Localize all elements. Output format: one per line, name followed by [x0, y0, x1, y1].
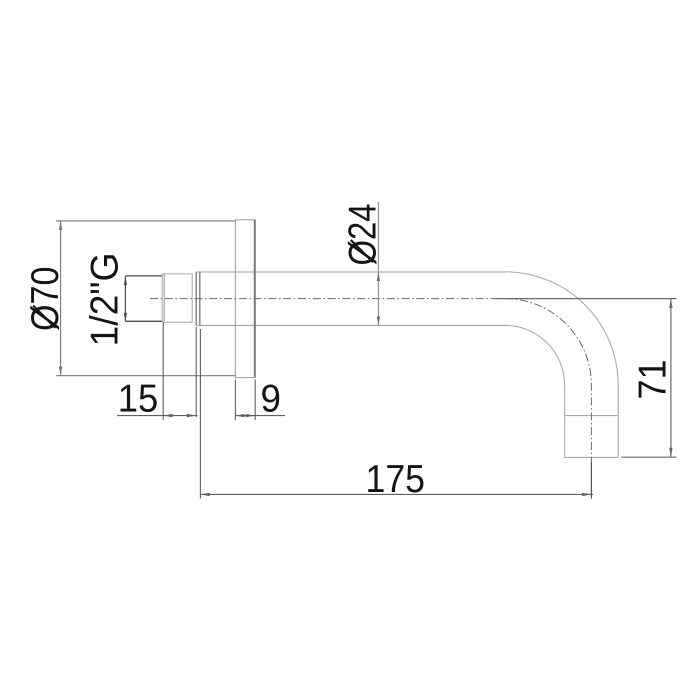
dimension Ø70: arrows [59, 221, 62, 377]
dimension 175: dimension line [200, 493, 593, 495]
horizontal pipe body [196, 272, 505, 325]
dimension 71: arrows [669, 299, 672, 458]
dimension 175: arrows [200, 493, 591, 496]
dimension Ø70: dimension line [60, 221, 62, 377]
spout bend outer arc [505, 272, 618, 385]
centerline solid extension below spout (175 right extension) [590, 462, 592, 499]
svg-text:Ø24: Ø24 [342, 204, 385, 266]
svg-text:1/2"G: 1/2"G [84, 253, 127, 347]
dimension Ø70: extension lines [56, 221, 235, 376]
dimension 71: extension lines [497, 299, 677, 458]
pipe end cap [196, 272, 200, 326]
svg-text:Ø70: Ø70 [24, 267, 67, 332]
dimension Ø24: diameter slash overshoot [351, 240, 373, 262]
dimension 15: arrows [163, 414, 196, 417]
svg-text:175: 175 [366, 458, 426, 501]
svg-text:71: 71 [632, 360, 675, 400]
dimension 9: extension lines [235, 380, 255, 421]
svg-text:15: 15 [118, 378, 159, 421]
dimension 71: dimension line [670, 299, 672, 458]
spout outlet bottom edge [565, 456, 619, 458]
aerator joint line [565, 415, 619, 417]
dimension 1/2"G: arrows [124, 276, 127, 321]
dimension 1/2"G: dimension line [124, 276, 126, 321]
thread (G1/2 nipple) [162, 274, 192, 322]
svg-text:9: 9 [261, 378, 282, 421]
spout bend inner arc [505, 325, 565, 385]
dimension 15: dimension line [117, 415, 198, 417]
dimension 15: extension lines [163, 323, 196, 421]
dimension 9: dimension line [235, 415, 285, 417]
dimension Ø24: leader line [377, 202, 379, 326]
wall flange [235, 220, 254, 378]
dimension Ø70: diameter slash overshoot [33, 306, 55, 328]
dimension 175: left extension line [199, 329, 201, 499]
dimension 1/2"G: extension lines [125, 276, 162, 321]
dimension 9: arrows [235, 414, 255, 417]
centerline (dash-dot) through pipe and bend [150, 299, 591, 462]
dimension Ø24: arrows [377, 272, 380, 325]
spout vertical outlet walls [565, 385, 619, 457]
